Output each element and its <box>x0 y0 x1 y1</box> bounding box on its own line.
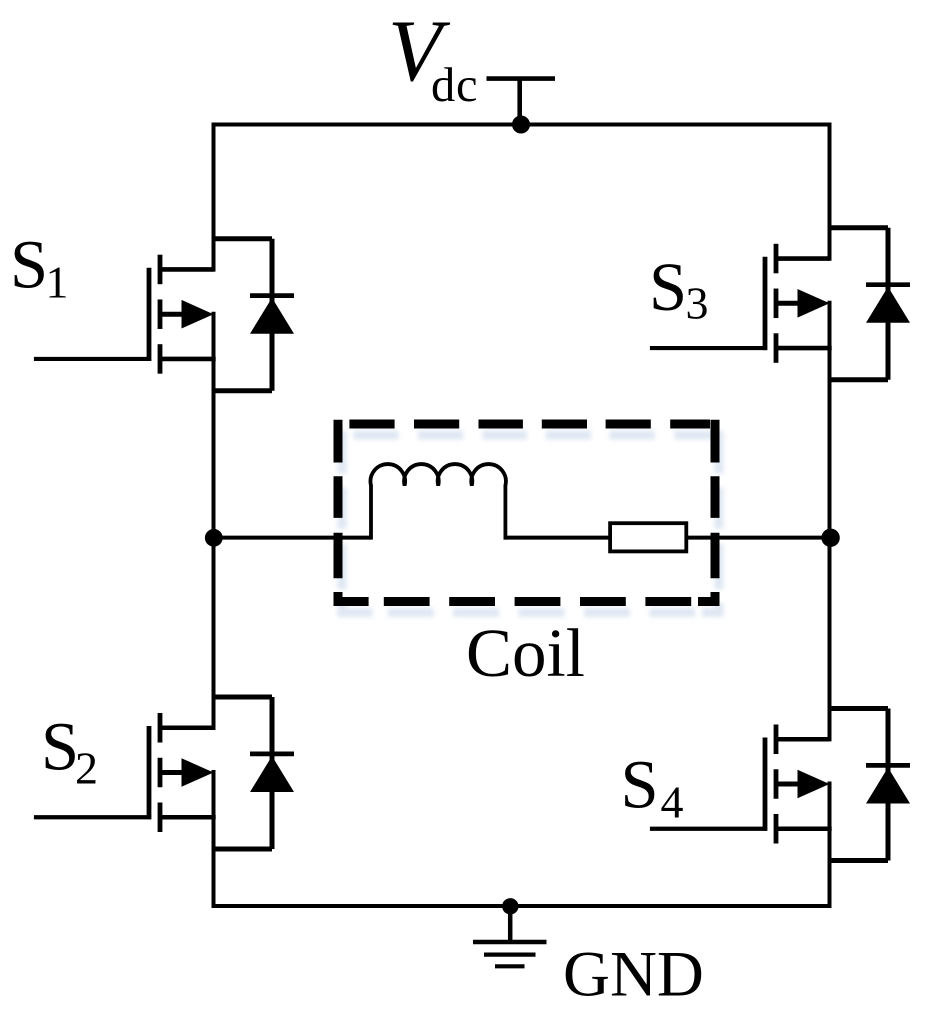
svg-text:S: S <box>621 746 659 822</box>
svg-text:4: 4 <box>661 777 684 828</box>
svg-text:GND: GND <box>563 938 704 1010</box>
svg-text:3: 3 <box>686 278 709 329</box>
svg-text:S: S <box>41 709 79 785</box>
svg-text:2: 2 <box>75 742 98 793</box>
svg-text:Coil: Coil <box>466 615 585 691</box>
svg-text:1: 1 <box>46 257 69 308</box>
svg-text:S: S <box>649 249 687 325</box>
svg-text:S: S <box>10 227 48 303</box>
svg-text:dc: dc <box>431 59 478 112</box>
